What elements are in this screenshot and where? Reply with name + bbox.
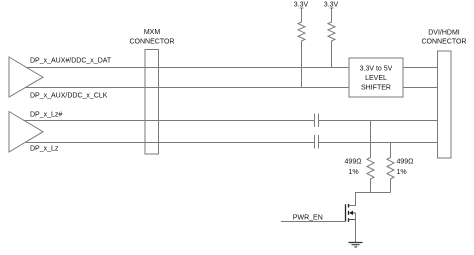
resistor R4 499 ohm (from DP_x_Lz) bbox=[387, 143, 394, 193]
wire DP_x_AUX/DDC_x_CLK left segment bbox=[25, 87, 349, 89]
svg-text:1%: 1% bbox=[397, 169, 407, 176]
Q1 source stub bbox=[349, 219, 356, 221]
svg-text:499Ω: 499Ω bbox=[397, 159, 414, 166]
label 499 ohm 1% left bbox=[345, 159, 362, 177]
Q1 channel segments bbox=[348, 204, 350, 222]
label MXM CONNECTOR bbox=[130, 29, 175, 46]
label 3.3V to 5V LEVEL SHIFTER bbox=[360, 66, 393, 92]
wire DP_x_AUX/DDC_x_CLK right segment (shifter to DVI) bbox=[403, 87, 438, 89]
level shifter U3 bbox=[349, 58, 403, 97]
svg-text:CONNECTOR: CONNECTOR bbox=[130, 38, 175, 45]
svg-text:3.3V to 5V: 3.3V to 5V bbox=[360, 66, 393, 73]
capacitor C1 plates (on DP_x_Lz#) bbox=[315, 114, 319, 128]
Q1 body to source link bbox=[353, 212, 356, 214]
svg-text:1%: 1% bbox=[348, 169, 358, 176]
wire DP_x_Lz# left segment bbox=[24, 120, 315, 122]
svg-text:3.3V: 3.3V bbox=[294, 1, 309, 8]
svg-text:MXM: MXM bbox=[144, 29, 161, 36]
ground symbol bbox=[349, 243, 363, 247]
resistor R3 499 ohm (from DP_x_Lz#) bbox=[367, 121, 374, 193]
DVI/HDMI connector J2 bbox=[438, 51, 452, 158]
svg-text:DP_x_AUX#/DDC_x_DAT: DP_x_AUX#/DDC_x_DAT bbox=[30, 57, 112, 64]
svg-text:499Ω: 499Ω bbox=[345, 159, 362, 166]
svg-text:PWR_EN: PWR_EN bbox=[293, 215, 323, 222]
svg-text:CONNECTOR: CONNECTOR bbox=[422, 39, 467, 46]
svg-text:DP_x_Lz: DP_x_Lz bbox=[30, 145, 59, 152]
wire resistor common node bbox=[349, 193, 391, 206]
transistor Q1 N-MOSFET bbox=[346, 204, 356, 222]
wire DP_x_AUX#/DDC_x_DAT left segment bbox=[26, 67, 349, 69]
capacitor C2 plates (on DP_x_Lz) bbox=[315, 135, 319, 149]
svg-text:DP_x_AUX/DDC_x_CLK: DP_x_AUX/DDC_x_CLK bbox=[30, 93, 108, 100]
wire DP_x_Lz right segment (cap to DVI) bbox=[319, 142, 438, 144]
resistor pull-up R1 (to DDC CLK) bbox=[298, 8, 305, 88]
label 499 ohm 1% right bbox=[397, 159, 414, 177]
svg-text:LEVEL: LEVEL bbox=[365, 75, 387, 82]
Q1 body arrow bbox=[349, 211, 353, 215]
svg-text:DVI/HDMI: DVI/HDMI bbox=[428, 29, 460, 36]
wire DP_x_Lz left segment bbox=[26, 142, 315, 144]
wire DP_x_AUX#/DDC_x_DAT right segment (shifter to DVI) bbox=[403, 67, 438, 69]
wire DP_x_Lz# right segment (cap to DVI) bbox=[319, 120, 438, 122]
buffer U1 bbox=[9, 57, 43, 97]
power tick 3.3V left bbox=[300, 7, 304, 9]
buffer U2 bbox=[9, 112, 43, 153]
wire source to ground bbox=[355, 213, 357, 242]
Q1 gate bar bbox=[345, 204, 347, 221]
resistor pull-up R2 (to DDC DAT) bbox=[328, 8, 335, 68]
power tick 3.3V right bbox=[330, 7, 334, 9]
svg-text:SHIFTER: SHIFTER bbox=[361, 85, 391, 92]
MXM connector J1 bbox=[145, 50, 159, 155]
svg-text:DP_x_Lz#: DP_x_Lz# bbox=[30, 112, 62, 119]
label DVI/HDMI CONNECTOR bbox=[422, 29, 467, 45]
svg-text:3.3V: 3.3V bbox=[324, 1, 339, 8]
wire PWR_EN to gate bbox=[281, 221, 346, 223]
